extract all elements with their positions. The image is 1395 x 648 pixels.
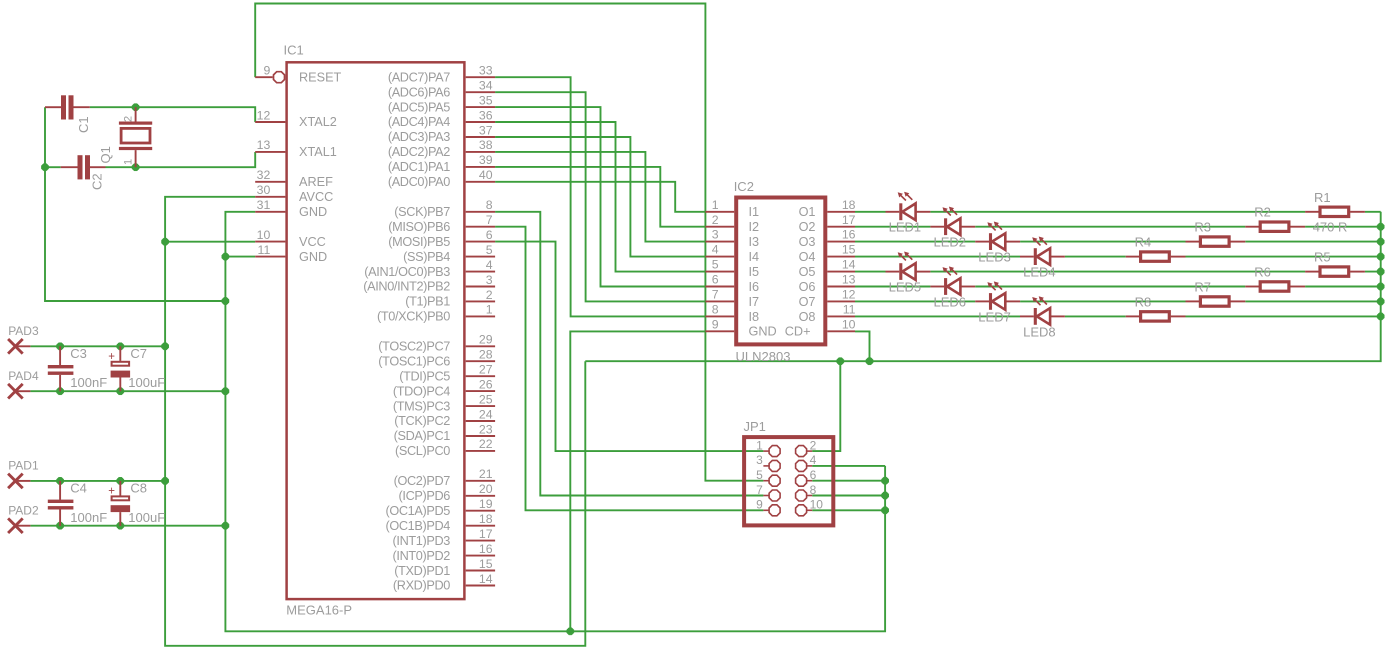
pin 38 (ADC2)PA2 of IC1	[466, 151, 495, 153]
pin 7 I7 of IC2	[705, 300, 734, 302]
capacitor C2 plates	[78, 155, 83, 179]
svg-text:4: 4	[810, 453, 817, 467]
pin 19 (OC1A)PD5 of IC1	[466, 510, 495, 512]
pad PAD4 cross	[8, 384, 23, 399]
svg-text:(ADC0)PA0: (ADC0)PA0	[388, 175, 450, 189]
wire PA7 to ULN2803 input I8	[495, 77, 705, 316]
svg-text:38: 38	[479, 138, 493, 152]
svg-text:C1: C1	[76, 116, 91, 133]
svg-text:I3: I3	[749, 235, 760, 249]
capacitor C1 right lead	[74, 106, 90, 108]
LED LED8	[1020, 296, 1065, 325]
svg-text:(AIN0/INT2)PB2: (AIN0/INT2)PB2	[363, 280, 450, 294]
svg-text:(INT0)PD2: (INT0)PD2	[393, 549, 451, 563]
resistor R1	[1305, 207, 1365, 216]
pin 8 I8 of IC2	[705, 315, 734, 317]
svg-text:(TXD)PD1: (TXD)PD1	[394, 564, 450, 578]
svg-text:O6: O6	[799, 280, 816, 294]
pin 29 (TOSC2)PC7 of IC1	[466, 345, 495, 347]
svg-text:40: 40	[479, 168, 493, 182]
svg-text:(TCK)PC2: (TCK)PC2	[394, 414, 450, 428]
pin 4 of JP1	[807, 465, 812, 467]
pin 7 of JP1	[763, 495, 768, 497]
svg-text:O5: O5	[799, 265, 816, 279]
svg-text:7: 7	[486, 213, 493, 227]
pin 18 O1 of IC2	[827, 211, 855, 213]
pin 8 of JP1	[807, 495, 812, 497]
pin 10 of JP1	[807, 509, 812, 511]
capacitor C7 top lead	[119, 346, 121, 361]
pin 9 RESET of IC1	[255, 76, 272, 78]
wire VCC bus along y=361 and right-side vertical to resistors	[585, 212, 1380, 361]
svg-text:27: 27	[479, 363, 493, 377]
pin 8 (SCK)PB7 of IC1	[466, 211, 495, 213]
wire LED1 to R1	[930, 211, 1305, 213]
LED LED1	[886, 192, 931, 221]
pin 6 (MOSI)PB5 of IC1	[466, 241, 495, 243]
svg-text:LED5: LED5	[889, 279, 922, 294]
junction VCC rail / pin10	[162, 238, 169, 245]
wire LED5 to R5	[930, 271, 1305, 273]
pin 30 AVCC of IC1	[255, 196, 285, 198]
svg-text:R2: R2	[1254, 205, 1271, 220]
junction C1/C2 left	[41, 164, 48, 171]
connector JP1 box	[744, 437, 833, 525]
svg-text:9: 9	[263, 64, 270, 78]
junction VCC bus / JP1 pin2 branch	[837, 358, 844, 365]
svg-text:100nF: 100nF	[70, 510, 107, 525]
LED LED3	[975, 222, 1020, 251]
svg-text:2: 2	[123, 116, 135, 122]
svg-text:(ICP)PD6: (ICP)PD6	[399, 489, 451, 503]
pin 14 O5 of IC2	[827, 271, 855, 273]
svg-text:C7: C7	[130, 346, 147, 361]
wire R1 to VCC vertical	[1365, 211, 1381, 213]
svg-text:100uF: 100uF	[128, 510, 165, 525]
svg-text:26: 26	[479, 377, 493, 391]
pin 24 (TCK)PC2 of IC1	[466, 420, 495, 422]
wire LED6 to R6	[975, 286, 1245, 288]
junction ground column / JP1 pin6	[882, 477, 889, 484]
wire LED3 to R3	[1020, 241, 1185, 243]
svg-text:PAD1: PAD1	[8, 459, 39, 473]
junction C8 bottom	[117, 522, 124, 529]
LED LED6	[930, 266, 975, 295]
svg-text:3: 3	[712, 228, 719, 242]
svg-text:1: 1	[123, 159, 135, 165]
wire R3 to VCC vertical	[1245, 241, 1380, 243]
svg-text:(ADC6)PA6: (ADC6)PA6	[388, 85, 450, 99]
junction C7 top	[117, 343, 124, 350]
svg-text:23: 23	[479, 422, 493, 436]
pin 4 (AIN1/OC0)PB3 of IC1	[466, 271, 495, 273]
svg-text:100uF: 100uF	[128, 375, 165, 390]
svg-text:11: 11	[258, 243, 271, 257]
pin 3 (AIN0/INT2)PB2 of IC1	[466, 286, 495, 288]
junction crystal bottom node	[132, 164, 139, 171]
svg-text:PAD4: PAD4	[8, 369, 39, 383]
pin 17 O2 of IC2	[827, 226, 855, 228]
wire IC2 GND pin9 to bottom ground bus	[570, 331, 705, 631]
svg-text:IC2: IC2	[734, 179, 754, 194]
pin 12 O7 of IC2	[827, 300, 855, 302]
svg-text:C8: C8	[130, 481, 147, 496]
pin 1 (T0/XCK)PB0 of IC1	[466, 315, 495, 317]
svg-text:(OC1B)PD4: (OC1B)PD4	[385, 519, 450, 533]
svg-text:I4: I4	[749, 250, 760, 264]
svg-text:3: 3	[756, 453, 763, 467]
wire IC2 output O5 to LED5	[855, 271, 886, 273]
wire IC2 output O7 to LED7	[855, 300, 975, 302]
svg-text:C2: C2	[90, 173, 105, 190]
pin 9 of JP1	[763, 509, 768, 511]
wire XTAL1 net: crystal bottom node to IC1 pin13	[136, 152, 256, 167]
svg-text:(SS)PB4: (SS)PB4	[403, 250, 450, 264]
pin 17 (INT1)PD3 of IC1	[466, 540, 495, 542]
capacitor C8 bottom lead	[119, 512, 121, 526]
junction C7 bottom	[117, 388, 124, 395]
pin 5 I5 of IC2	[705, 271, 734, 273]
wire PAD1 row to VCC rail	[30, 480, 165, 482]
wire R4 to VCC vertical	[1186, 256, 1381, 258]
svg-text:VCC: VCC	[299, 235, 326, 249]
svg-text:I8: I8	[749, 310, 760, 324]
capacitor C4 plates	[48, 500, 74, 503]
svg-text:2: 2	[810, 438, 817, 452]
pin 5 (SS)PB4 of IC1	[466, 256, 495, 258]
svg-text:30: 30	[257, 183, 271, 197]
wire GND net: pin31 left, down GND rail, along bottom, up to JP1 ground column	[225, 212, 885, 632]
wire LED8 to R8	[1065, 315, 1126, 317]
svg-text:9: 9	[712, 317, 719, 331]
svg-text:8: 8	[712, 303, 719, 317]
pin 23 (SDA)PC1 of IC1	[466, 435, 495, 437]
pin 2 I2 of IC2	[705, 226, 734, 228]
pin 32 AREF of IC1	[255, 181, 285, 183]
junction C3 top	[57, 343, 64, 350]
svg-text:14: 14	[842, 258, 856, 272]
svg-text:LED2: LED2	[934, 235, 967, 250]
junction C4 top	[57, 477, 64, 484]
junction GND rail / C1-C2 branch	[222, 297, 229, 304]
svg-text:GND: GND	[299, 205, 327, 219]
svg-text:10: 10	[257, 228, 271, 242]
junction ground column / JP1 pin10	[882, 507, 889, 514]
pin 3 of JP1	[763, 465, 768, 467]
capacitor C2 right lead	[90, 166, 106, 168]
LED LED7	[975, 281, 1020, 309]
pin 40 (ADC0)PA0 of IC1	[466, 181, 495, 183]
resistor R6	[1245, 282, 1305, 291]
wire IC2 output O3 to LED3	[855, 241, 975, 243]
svg-text:GND: GND	[299, 250, 327, 264]
crystal Q1 bottom plate	[119, 147, 152, 150]
svg-text:R5: R5	[1314, 250, 1331, 265]
wire PAD4 row to GND rail	[30, 390, 225, 392]
capacitor C1 plates	[61, 95, 66, 119]
svg-text:16: 16	[479, 542, 493, 556]
pin 35 (ADC5)PA5 of IC1	[466, 106, 495, 108]
pin 13 O6 of IC2	[827, 286, 855, 288]
svg-text:6: 6	[712, 273, 719, 287]
svg-text:1: 1	[486, 303, 493, 317]
capacitor C7 negative plate	[111, 371, 131, 378]
junction right VCC vertical / R5 row	[1377, 268, 1384, 275]
pin 13 XTAL1 of IC1	[255, 151, 285, 153]
svg-text:12: 12	[257, 108, 271, 122]
svg-text:(ADC5)PA5: (ADC5)PA5	[388, 100, 450, 114]
svg-text:(AIN1/OC0)PB3: (AIN1/OC0)PB3	[364, 265, 450, 279]
svg-text:22: 22	[479, 437, 493, 451]
svg-text:I6: I6	[749, 280, 760, 294]
wire JP1 pin4 to ground column	[812, 465, 885, 467]
pin 2 of JP1	[807, 450, 812, 452]
junction C4 bottom	[57, 522, 64, 529]
svg-text:(ADC3)PA3: (ADC3)PA3	[388, 130, 450, 144]
op-amp IC1 MEGA16-P box	[287, 62, 465, 599]
svg-text:(SCL)PC0: (SCL)PC0	[395, 444, 450, 458]
pin 9 GND of IC2	[705, 330, 734, 332]
svg-text:CD+: CD+	[785, 325, 811, 339]
svg-text:36: 36	[479, 108, 493, 122]
svg-text:(MISO)PB6: (MISO)PB6	[388, 220, 450, 234]
pad PAD1 cross	[8, 474, 23, 489]
svg-text:8: 8	[486, 198, 493, 212]
svg-text:LED4: LED4	[1023, 265, 1056, 280]
capacitor C7 positive plate	[112, 362, 130, 366]
svg-text:(TDO)PC4: (TDO)PC4	[393, 384, 450, 398]
svg-text:5: 5	[756, 468, 763, 482]
wire PA3 to ULN2803 input I4	[495, 137, 705, 257]
wire RESET net: IC1 pin9 up, across top, down to JP1 pin5	[255, 4, 763, 481]
junction crystal top node	[132, 104, 139, 111]
resistor R2	[1245, 222, 1305, 231]
svg-text:(ADC2)PA2: (ADC2)PA2	[388, 145, 450, 159]
wire VCC net: AVCC pin30 left and down the VCC rail, along bottom, up to CD+ rail	[165, 197, 585, 646]
wire JP1 pin2 to VCC bus	[812, 361, 840, 451]
pin 15 O4 of IC2	[827, 256, 855, 258]
pin 5 of JP1	[763, 480, 768, 482]
pin 3 I3 of IC2	[705, 241, 734, 243]
pin 6 of JP1	[807, 480, 812, 482]
pin 37 (ADC3)PA3 of IC1	[466, 136, 495, 138]
pad PAD2 cross	[8, 518, 23, 533]
svg-text:28: 28	[479, 348, 493, 362]
svg-text:33: 33	[479, 64, 493, 78]
wire GND pin11 branch	[225, 256, 255, 258]
svg-text:17: 17	[479, 527, 493, 541]
crystal Q1 bottom lead	[135, 150, 137, 167]
svg-text:(TDI)PC5: (TDI)PC5	[399, 369, 450, 383]
pin 2 (T1)PB1 of IC1	[466, 300, 495, 302]
pin 1 I1 of IC2	[705, 211, 734, 213]
LED LED5	[886, 252, 931, 280]
svg-text:29: 29	[479, 333, 493, 347]
svg-text:(TMS)PC3: (TMS)PC3	[393, 399, 450, 413]
svg-text:17: 17	[842, 213, 856, 227]
svg-text:4: 4	[712, 243, 719, 257]
wire IC2 output O4 to LED4	[855, 256, 1020, 258]
junction C3 bottom	[57, 388, 64, 395]
svg-text:(ADC7)PA7: (ADC7)PA7	[388, 70, 450, 84]
svg-text:25: 25	[479, 392, 493, 406]
svg-text:6: 6	[486, 228, 493, 242]
pin 1 of JP1	[763, 450, 768, 452]
svg-text:37: 37	[479, 123, 493, 137]
svg-text:R8: R8	[1135, 294, 1152, 309]
svg-text:9: 9	[756, 498, 763, 512]
svg-text:7: 7	[712, 288, 719, 302]
wire R6 to VCC vertical	[1305, 286, 1381, 288]
capacitor C3 bottom lead	[59, 375, 61, 391]
svg-text:(T0/XCK)PB0: (T0/XCK)PB0	[377, 310, 450, 324]
junction GND rail / PAD4 row	[222, 388, 229, 395]
pin 16 O3 of IC2	[827, 241, 855, 243]
pin 12 XTAL2 of IC1	[255, 121, 285, 123]
junction VCC bus / CD+ branch	[866, 358, 873, 365]
svg-text:5: 5	[712, 258, 719, 272]
svg-text:470 R: 470 R	[1313, 220, 1348, 235]
wire C2 to crystal bottom node	[106, 166, 136, 168]
svg-text:LED1: LED1	[889, 220, 922, 235]
svg-text:R3: R3	[1194, 220, 1211, 235]
wire R8 to VCC vertical	[1186, 315, 1381, 317]
svg-text:21: 21	[479, 467, 493, 481]
wire IC2 CD+ pin10 branch to VCC bus	[855, 331, 870, 361]
svg-text:(OC1A)PD5: (OC1A)PD5	[385, 504, 450, 518]
pin 21 (OC2)PD7 of IC1	[466, 480, 495, 482]
capacitor C3 plates	[48, 365, 74, 368]
svg-text:(MOSI)PB5: (MOSI)PB5	[388, 235, 450, 249]
pin 6 I6 of IC2	[705, 286, 734, 288]
svg-text:R4: R4	[1135, 235, 1152, 250]
pin 31 GND of IC1	[255, 211, 285, 213]
svg-text:I5: I5	[749, 265, 760, 279]
svg-text:LED6: LED6	[934, 294, 967, 309]
svg-text:I2: I2	[749, 220, 760, 234]
wire PAD2 row to GND rail	[30, 525, 225, 527]
wire VCC pin10 branch	[165, 241, 255, 243]
pin 7 (MISO)PB6 of IC1	[466, 226, 495, 228]
svg-text:C4: C4	[70, 481, 87, 496]
svg-text:11: 11	[843, 303, 856, 317]
svg-text:(OC2)PD7: (OC2)PD7	[394, 474, 451, 488]
wire C1 to crystal top node	[90, 106, 136, 108]
wire LED2 to R2	[975, 226, 1245, 228]
svg-text:5: 5	[486, 243, 493, 257]
svg-text:14: 14	[479, 572, 493, 586]
wire XTAL2 net: crystal top node to IC1 pin12	[136, 107, 256, 122]
svg-text:20: 20	[479, 482, 493, 496]
pin 25 (TMS)PC3 of IC1	[466, 405, 495, 407]
capacitor C2 left lead	[61, 166, 78, 168]
svg-text:(RXD)PD0: (RXD)PD0	[393, 579, 450, 593]
junction GND rail / pin11	[222, 253, 229, 260]
svg-text:1: 1	[712, 198, 719, 212]
pin 34 (ADC6)PA6 of IC1	[466, 91, 495, 93]
svg-text:35: 35	[479, 93, 493, 107]
svg-text:13: 13	[842, 273, 856, 287]
svg-text:RESET: RESET	[299, 70, 342, 84]
crystal Q1 top plate	[119, 122, 152, 125]
junction right VCC vertical / R7 row	[1377, 298, 1384, 305]
svg-text:(TOSC2)PC7: (TOSC2)PC7	[378, 340, 450, 354]
wire IC2 output O6 to LED6	[855, 286, 930, 288]
svg-text:XTAL1: XTAL1	[299, 145, 337, 159]
svg-text:15: 15	[842, 243, 856, 257]
junction right VCC vertical / R2 row	[1377, 223, 1384, 230]
svg-text:31: 31	[257, 198, 271, 212]
svg-text:18: 18	[842, 198, 856, 212]
junction ground bus / IC2 GND	[567, 628, 574, 635]
svg-text:AREF: AREF	[299, 175, 333, 189]
pin 16 (INT0)PD2 of IC1	[466, 555, 495, 557]
svg-text:2: 2	[712, 213, 719, 227]
pin 14 (RXD)PD0 of IC1	[466, 585, 495, 587]
svg-text:IC1: IC1	[284, 42, 304, 57]
svg-text:18: 18	[479, 512, 493, 526]
svg-text:JP1: JP1	[744, 419, 766, 434]
crystal Q1 body	[121, 128, 150, 143]
IC IC2 ULN2803 box	[736, 198, 825, 345]
svg-text:R6: R6	[1254, 265, 1271, 280]
svg-text:6: 6	[810, 468, 817, 482]
junction VCC rail / PAD1 row	[162, 477, 169, 484]
wire R2 to VCC vertical	[1305, 226, 1381, 228]
resistor R5	[1305, 267, 1365, 276]
wire PA1 to ULN2803 input I2	[495, 167, 705, 227]
resistor R7	[1186, 297, 1246, 306]
svg-text:R7: R7	[1194, 279, 1211, 294]
svg-text:15: 15	[479, 557, 493, 571]
capacitor C3 top lead	[59, 346, 61, 365]
svg-text:(INT1)PD3: (INT1)PD3	[393, 534, 451, 548]
svg-text:10: 10	[842, 317, 856, 331]
svg-text:PAD3: PAD3	[8, 324, 39, 338]
svg-text:32: 32	[257, 168, 271, 182]
svg-text:MEGA16-P: MEGA16-P	[286, 603, 352, 618]
svg-text:C3: C3	[70, 346, 87, 361]
wire LED7 to R7	[1020, 300, 1185, 302]
pin 10 CD+ of IC2	[827, 330, 855, 332]
svg-text:39: 39	[479, 153, 493, 167]
capacitor C7 bottom lead	[119, 378, 121, 392]
pin 11 O8 of IC2	[827, 315, 855, 317]
svg-text:R1: R1	[1314, 190, 1331, 205]
svg-text:O7: O7	[799, 295, 816, 309]
svg-text:24: 24	[479, 407, 493, 421]
svg-text:I7: I7	[749, 295, 760, 309]
svg-text:(ADC4)PA4: (ADC4)PA4	[388, 115, 450, 129]
pin 26 (TDO)PC4 of IC1	[466, 390, 495, 392]
junction right VCC vertical / R8 row	[1377, 313, 1384, 320]
LED LED2	[930, 207, 975, 236]
junction right VCC vertical / R3 row	[1377, 238, 1384, 245]
wire PA0 to ULN2803 input I1	[495, 182, 705, 212]
svg-text:2: 2	[486, 288, 493, 302]
svg-text:13: 13	[257, 138, 271, 152]
wire JP1 pin6 to ground column	[812, 480, 885, 482]
svg-text:19: 19	[479, 497, 493, 511]
svg-text:10: 10	[810, 498, 824, 512]
wire MISO: PB6 to JP1 pin9	[495, 227, 763, 511]
svg-text:O3: O3	[799, 235, 816, 249]
resistor R4	[1126, 252, 1186, 261]
svg-text:ULN2803: ULN2803	[736, 349, 791, 364]
wire JP1 pin10 to ground column	[812, 509, 885, 511]
svg-text:AVCC: AVCC	[299, 190, 333, 204]
junction ground column / JP1 pin8	[882, 492, 889, 499]
